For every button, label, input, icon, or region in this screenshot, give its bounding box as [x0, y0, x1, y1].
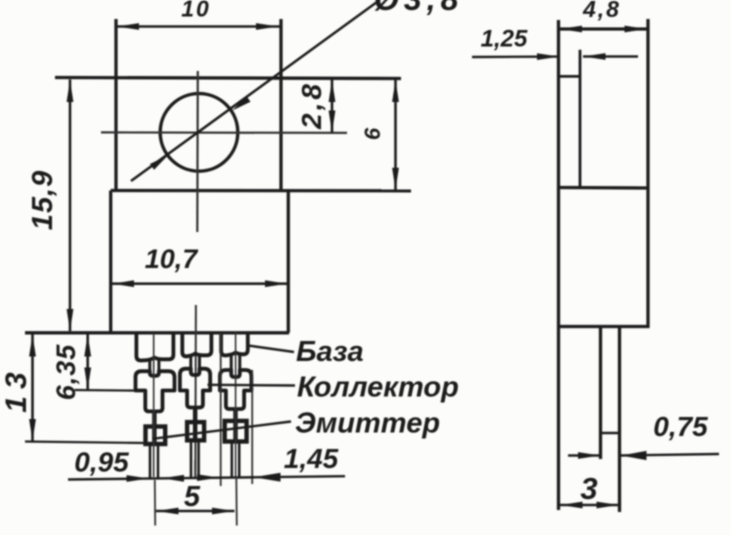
svg-text:13: 13	[0, 365, 33, 412]
svg-text:5: 5	[184, 481, 201, 513]
svg-text:6,35: 6,35	[51, 344, 81, 401]
svg-text:10: 10	[181, 0, 211, 22]
svg-text:0,95: 0,95	[74, 447, 129, 478]
svg-text:1,25: 1,25	[481, 26, 528, 53]
svg-text:База: База	[296, 336, 364, 368]
svg-text:15,9: 15,9	[27, 170, 59, 230]
svg-text:10,7: 10,7	[145, 244, 200, 274]
svg-text:0,75: 0,75	[653, 411, 708, 442]
svg-text:1,45: 1,45	[284, 443, 339, 474]
svg-text:4,8: 4,8	[582, 0, 621, 22]
svg-text:3: 3	[580, 471, 597, 506]
svg-text:6: 6	[360, 127, 385, 140]
svg-text:Эмиттер: Эмиттер	[295, 408, 440, 440]
svg-text:Коллектор: Коллектор	[297, 372, 459, 404]
svg-text:Ø3,8: Ø3,8	[374, 0, 463, 17]
svg-text:2,8: 2,8	[296, 81, 327, 130]
